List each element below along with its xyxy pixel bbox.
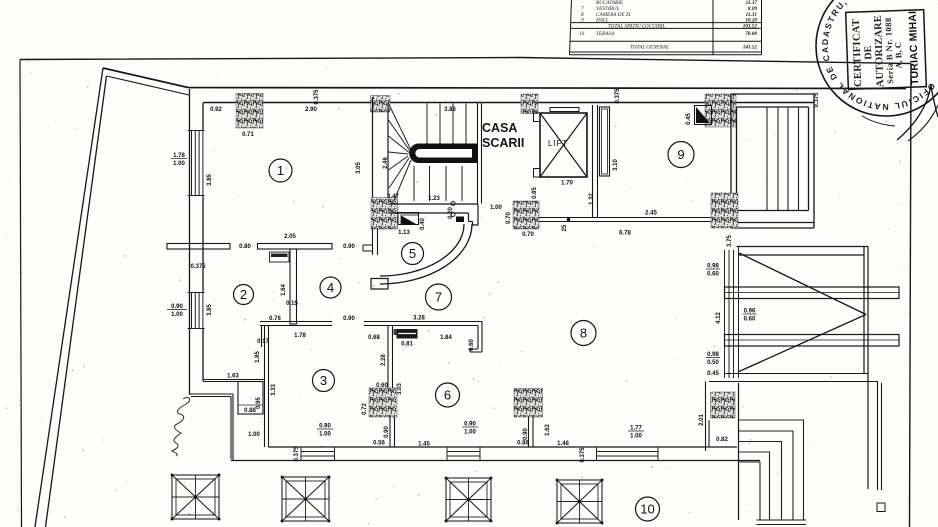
svg-text:3.28: 3.28 [413,316,425,322]
stair right wall [478,103,482,204]
closet box room 2 [238,382,263,415]
lift wall stub top-left [534,113,541,122]
svg-text:2.28: 2.28 [381,354,387,366]
right stair frame right wall [809,94,815,228]
svg-text:0.90: 0.90 [343,244,355,250]
room number circle 3 [313,370,335,392]
svg-text:SCARII: SCARII [482,136,524,150]
concrete column C3 lift top (stippled) [521,94,538,114]
svg-text:3.75: 3.75 [727,235,733,247]
concrete column C9 bottom mid-left (stippled) [369,388,397,417]
svg-text:2.45: 2.45 [645,211,657,217]
concrete column C4 room9 top (stippled) [705,94,736,127]
dimension 0.90/1.00 [317,424,333,438]
svg-text:25: 25 [562,224,568,231]
concrete column C2 stair top (stippled) [371,96,391,113]
svg-text:0.92: 0.92 [210,107,222,113]
room number circle 8 [571,321,596,346]
svg-text:0.375: 0.375 [814,92,820,108]
svg-text:0.81: 0.81 [401,342,413,348]
black wedge marker left of column C4 [695,106,712,125]
balcony top edge lines [737,247,869,256]
left wall segment below window 2 [202,329,204,382]
wall 3.28 right end L [470,322,482,353]
table row TOTAL SPATIU LOCUIBIL [608,24,757,30]
svg-text:3.85: 3.85 [207,304,213,316]
foundation pillar P4 [556,479,604,525]
wall stub crossing left wall at room 1 bottom [167,244,230,250]
svg-text:0.80: 0.80 [239,244,251,250]
svg-text:0.47: 0.47 [387,194,399,200]
svg-text:TOTAL SPATIU LOCUIBIL: TOTAL SPATIU LOCUIBIL [608,24,665,30]
room number circle 9 [668,142,694,168]
svg-text:2.05: 2.05 [284,234,296,240]
roof overhang line from boundary apex across plan [103,68,906,89]
small black door mark on stair wall [456,217,464,223]
svg-text:7: 7 [435,290,442,305]
svg-text:1.85: 1.85 [255,351,261,363]
bottom exterior wall top edge [269,446,738,448]
svg-text:0.82: 0.82 [716,437,728,443]
svg-text:TERASA: TERASA [596,31,615,37]
svg-text:2.90: 2.90 [305,107,317,113]
concrete column C1 top (stippled) [236,94,263,129]
small box at pipe bottom [877,503,885,512]
svg-text:0.45: 0.45 [707,371,719,377]
room2/4 south partition wall [260,322,332,326]
svg-text:1.62: 1.62 [545,424,551,436]
svg-text:0.375: 0.375 [190,264,206,270]
svg-text:0.375: 0.375 [294,446,300,462]
room number circle 7 [426,284,452,310]
svg-text:3.86: 3.86 [444,107,456,113]
svg-text:1.78: 1.78 [294,333,306,339]
stairwell bottom wall [389,204,478,225]
stamp circular text OFICIUL NATIONAL DE CADASTRU GEODEZIE SI CARTOGRAFIE [0,0,938,112]
left exterior wall inner face [202,103,204,132]
dimension 0.98/0.60 [706,264,720,278]
terrain boundary inner diagonal line [46,76,107,527]
window W1 in left wall [188,131,205,196]
lift wall stub bottom-left [534,169,541,178]
short slanted line under apex [107,76,190,95]
window W4 in bottom wall [447,447,480,461]
svg-text:9: 9 [677,147,684,162]
left exterior wall outer face [190,89,192,394]
svg-text:9: 9 [581,17,584,23]
dimension 1.78/1.00 [171,153,187,167]
svg-text:0.88: 0.88 [244,408,256,414]
svg-text:LIFT: LIFT [548,138,568,148]
curved wall outer arc [380,224,472,284]
sheet top border line [20,58,911,64]
svg-text:6.78: 6.78 [619,231,631,237]
svg-text:0.98: 0.98 [707,352,719,358]
terrace steps bottom band [757,520,807,525]
svg-text:1.00: 1.00 [248,432,260,438]
svg-text:141.52: 141.52 [743,44,758,50]
stair left wall inner face [387,103,389,200]
svg-text:0.71: 0.71 [242,132,254,138]
partition wall vertical between rooms 2 and 4 [290,249,297,324]
balcony rail bar upper inner line [725,292,900,294]
concrete column C6 below lift (stippled) [513,201,539,229]
svg-text:10: 10 [640,502,654,517]
hall south wall (3.28) [364,322,482,326]
foundation pillar P1 [171,474,221,521]
left exterior wall lower leg [190,394,234,461]
room number circle 10 [636,497,660,521]
wall below stair left wall [373,229,378,255]
table room rows [581,0,757,23]
room number circle 1 [269,159,292,182]
svg-text:1.70: 1.70 [561,181,573,187]
dimension 1.77/1.00 [628,426,644,440]
svg-text:1.13: 1.13 [398,230,410,236]
svg-text:0.90: 0.90 [319,424,331,430]
svg-text:3.85: 3.85 [207,174,213,186]
stair handrail (black U ring) [409,144,477,164]
terrace corner steps [739,420,804,520]
window W5 in bottom wall [597,447,659,461]
dimension 0.90/1.00 [462,422,478,436]
right stair frame left wall [731,94,737,228]
svg-text:0.40: 0.40 [420,218,426,230]
svg-text:1.48: 1.48 [557,441,569,447]
svg-text:0.90: 0.90 [343,316,355,322]
handwritten annotation squiggle [172,398,190,456]
ramp direction chevron lower diagonal [739,315,866,372]
table row 10 TERASA [579,31,757,37]
svg-text:1.45: 1.45 [418,442,430,448]
svg-text:78.00: 78.00 [745,31,757,37]
svg-text:3.10: 3.10 [613,159,619,171]
lift X cross [540,113,587,177]
svg-text:0.70: 0.70 [506,212,512,224]
svg-text:8: 8 [580,326,587,341]
svg-text:0.86: 0.86 [517,441,529,447]
concrete column C7 right stair bottom (stippled) [711,193,738,228]
dark door rect under wall [394,329,418,339]
dimension 0.96/0.60 [743,309,757,323]
window W2 in left wall [188,293,205,329]
svg-text:1.00: 1.00 [464,430,476,436]
concrete column C5 stair bottom (stippled) [371,198,398,230]
svg-text:1.77: 1.77 [630,426,642,432]
dimension 0.98/0.50 [706,352,720,366]
foundation pillar P3 [445,477,493,523]
svg-text:10: 10 [579,31,585,37]
stair winder fan step lines [389,105,412,201]
svg-text:1.64: 1.64 [281,284,287,296]
svg-text:0.85: 0.85 [532,187,538,199]
svg-text:A, B, C: A, B, C [893,42,904,69]
room 9 south wall double line [539,218,711,222]
svg-text:1.63: 1.63 [227,374,239,380]
svg-text:0.96: 0.96 [744,309,756,315]
curved wall inner arc [380,224,464,276]
balcony east wall double line [864,247,868,490]
svg-text:1.32: 1.32 [589,193,595,205]
svg-text:2.46: 2.46 [383,157,389,169]
svg-text:0.76: 0.76 [269,316,281,322]
balcony rail bar upper [725,287,900,299]
svg-text:103.52: 103.52 [743,24,758,30]
svg-text:0.15: 0.15 [286,301,298,307]
rooms 3/6 partition wall [388,326,393,389]
room number circle 2 [234,285,254,305]
wall below column C10 [529,417,534,447]
bottom exterior wall bottom edge [231,460,760,462]
left wall segment between windows [202,196,204,293]
wall below column C9 [390,417,395,447]
stair left wall outer face [372,97,374,203]
svg-text:1.00: 1.00 [173,161,185,167]
wall below column C8 [706,382,710,452]
svg-text:DE: DE [863,45,874,60]
wall right of lift [593,105,598,218]
svg-text:0.60: 0.60 [376,383,388,389]
svg-text:1.84: 1.84 [440,335,452,341]
svg-text:3.03: 3.03 [397,383,403,395]
svg-text:1.00: 1.00 [319,432,331,438]
room number circle 4 [320,277,341,298]
concrete column C8 terrace (stippled) [711,392,736,418]
table row TOTAL GENERAL [630,44,757,50]
door hinge circles [451,202,455,217]
balcony rail bar lower [725,335,900,347]
svg-text:0.375: 0.375 [615,88,621,104]
svg-text:CASA: CASA [482,121,517,135]
second stamp inner curve [908,105,938,141]
room number circle 5 [402,243,424,265]
junction dot on wall [567,218,571,222]
balcony rail bar lower inner line [725,339,900,341]
svg-text:0.90: 0.90 [523,428,529,440]
svg-text:0.60: 0.60 [469,339,475,351]
rooms 2/3 west partition wall [262,326,269,448]
svg-text:6: 6 [444,388,451,403]
svg-text:5: 5 [409,246,416,261]
stamp inner rectangle [846,10,927,90]
east window band wall with mullions [725,247,739,379]
svg-text:4: 4 [327,280,334,295]
svg-text:1.00: 1.00 [630,434,642,440]
svg-text:0.90: 0.90 [171,304,183,310]
curved wall door cap [371,279,388,290]
dimension 0.90/1.00 [167,304,187,318]
svg-text:0.375: 0.375 [314,89,320,105]
concrete column C10 bottom mid-right (stippled) [514,389,543,418]
svg-text:0.90: 0.90 [464,422,476,428]
stair top flight step lines [427,104,466,144]
foundation pillar P2 [281,476,331,523]
top exterior wall line [204,102,815,104]
svg-text:0.95: 0.95 [256,397,262,409]
svg-text:0.56: 0.56 [373,441,385,447]
svg-text:0.60: 0.60 [707,272,719,278]
svg-text:0.90: 0.90 [384,426,390,438]
terrace second line with hook [709,382,878,491]
sheet right border line [910,64,912,527]
svg-text:TOTAL GENERAL: TOTAL GENERAL [630,44,669,50]
shaft duct right of lift inner [602,109,608,174]
svg-text:0.72: 0.72 [362,403,368,415]
terrace left edge [738,383,740,520]
door with black wedge below stair [398,213,419,225]
svg-text:1.78: 1.78 [173,153,185,159]
right stair frame top band [731,94,814,107]
svg-text:0.68: 0.68 [368,335,380,341]
svg-text:1.00: 1.00 [490,205,502,211]
svg-text:0.70: 0.70 [522,232,534,238]
svg-text:0.375: 0.375 [580,447,586,463]
svg-text:0.60: 0.60 [744,317,756,323]
room 2 south wall [203,380,265,382]
svg-text:3.05: 3.05 [356,162,362,174]
svg-text:2: 2 [240,287,247,302]
lift door bar top [550,108,579,112]
svg-text:0.50: 0.50 [707,360,719,366]
drain pipe double line [881,383,883,490]
svg-text:2.01: 2.01 [699,414,705,426]
right stair step lines [767,107,799,211]
svg-text:3.33: 3.33 [271,384,277,396]
stair bottom flight step lines [414,166,462,201]
svg-text:0.98: 0.98 [707,264,719,270]
terrain boundary double diagonal line [35,68,103,527]
terrace top line [725,373,869,375]
svg-text:1: 1 [277,163,284,178]
radiator symbol room 1 [270,252,290,262]
svg-text:10.20: 10.20 [745,17,757,23]
shaft duct right of lift outer [600,107,610,176]
lift shaft box [540,113,587,177]
room number circle 6 [436,383,460,407]
svg-text:HALL: HALL [595,17,609,23]
right stair frame bottom band [731,211,814,229]
second stamp curved fragment at right edge [897,85,938,140]
svg-text:1.23: 1.23 [428,196,440,202]
ramp direction chevron upper diagonal [739,253,866,315]
areas table frame [570,0,762,55]
notch stub left of below-stair wall [363,245,373,251]
svg-text:3: 3 [320,373,327,388]
svg-text:0.45: 0.45 [686,113,692,125]
room 1 / room 4 partition wall horizontal [258,244,333,250]
svg-text:1.00: 1.00 [171,312,183,318]
svg-text:0.17: 0.17 [257,339,269,345]
svg-text:4.12: 4.12 [716,312,722,324]
sheet left border line [20,60,22,527]
round certification stamp circle [816,0,938,116]
window W3 in bottom wall [301,447,335,461]
